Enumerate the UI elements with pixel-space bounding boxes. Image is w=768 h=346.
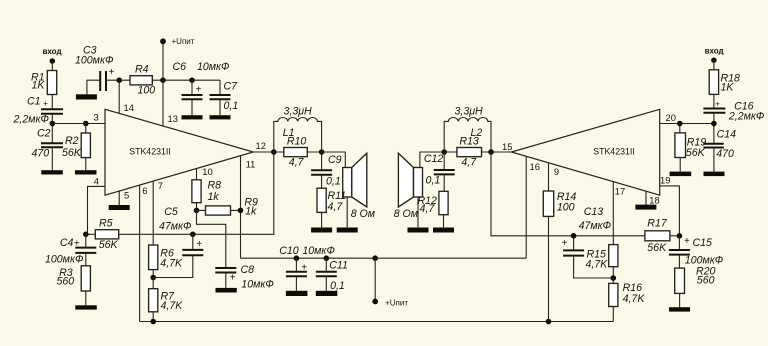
- node C15/R17: [677, 233, 683, 239]
- node R8/R9: [194, 208, 200, 214]
- svg-text:C5: C5: [164, 206, 178, 218]
- node C6 top: [189, 77, 195, 83]
- pin 18 wire: [645, 191, 647, 205]
- wire R3 to ground: [85, 291, 87, 305]
- svg-text:R13: R13: [459, 136, 479, 148]
- ground pin 5: [109, 205, 130, 210]
- feedback wire right (output node to R17): [491, 152, 645, 236]
- wire speaker right to ground: [417, 197, 419, 227]
- wire +U node to C6/C7: [163, 79, 220, 81]
- node R19 top: [677, 121, 683, 127]
- node output L1 right: [319, 149, 325, 155]
- node R7 bottom: [150, 319, 156, 325]
- svg-text:100: 100: [557, 202, 575, 214]
- pin 7 wire (to R6): [152, 181, 154, 245]
- svg-text:R5: R5: [99, 218, 113, 230]
- svg-text:19: 19: [660, 175, 670, 186]
- svg-text:0,1: 0,1: [326, 176, 341, 188]
- svg-text:+Uпит: +Uпит: [172, 37, 195, 46]
- capacitor C16 2,2мкФ: [703, 100, 764, 123]
- ground speaker right: [408, 228, 429, 233]
- svg-text:C15: C15: [693, 237, 713, 249]
- svg-text:+: +: [196, 85, 202, 96]
- +U supply rail (bottom middle): [241, 257, 527, 259]
- wire R12 to ground: [443, 215, 445, 228]
- ground R20: [669, 307, 690, 311]
- svg-text:17: 17: [615, 186, 625, 197]
- ground pin 18: [635, 205, 656, 210]
- svg-text:2,2мкФ: 2,2мкФ: [13, 114, 49, 126]
- wire R8 node to C8: [197, 210, 226, 268]
- capacitor C15 100мкФ: [669, 236, 723, 268]
- wire to right speaker: [420, 152, 444, 168]
- svg-text:4,7K: 4,7K: [161, 300, 184, 312]
- speaker left 8 Ом: [343, 153, 376, 220]
- svg-text:560: 560: [57, 276, 75, 288]
- svg-text:STK4231II: STK4231II: [593, 147, 635, 157]
- speaker right 8 Ом: [394, 153, 423, 220]
- wire R2 to ground: [85, 158, 87, 171]
- pin 9 wire (to R14): [548, 163, 550, 191]
- resistor R18 1K: [709, 70, 740, 95]
- pin 5 wire: [118, 191, 120, 205]
- capacitor C4 100мкФ: [45, 234, 96, 265]
- capacitor C13 47мкФ: [562, 206, 614, 278]
- ground C8: [216, 288, 237, 293]
- svg-text:10мкФ: 10мкФ: [197, 61, 229, 73]
- op-amp IC2 STK4231II (right): [511, 109, 659, 195]
- node input junction: [50, 121, 56, 127]
- capacitor C9 0,1: [311, 152, 342, 188]
- svg-text:15: 15: [502, 141, 512, 152]
- svg-text:+: +: [196, 239, 202, 250]
- svg-text:4,7K: 4,7K: [623, 293, 646, 305]
- svg-text:10: 10: [202, 166, 212, 177]
- wire C2 to ground: [51, 147, 53, 170]
- power terminal +Uпит (top): [160, 37, 195, 46]
- svg-text:5: 5: [124, 189, 129, 200]
- node R14 bottom: [546, 319, 552, 325]
- capacitor C5 47мкФ: [153, 206, 203, 278]
- svg-text:C1: C1: [27, 96, 41, 108]
- ground C14: [704, 172, 725, 177]
- svg-text:100мкФ: 100мкФ: [45, 254, 83, 266]
- pin 17 wire (to R15): [612, 182, 614, 245]
- svg-text:47мкФ: 47мкФ: [159, 221, 191, 233]
- node C5 top: [190, 232, 196, 238]
- wire speaker to ground: [346, 197, 348, 227]
- resistor R10 4,7: [274, 136, 322, 169]
- pin 10 wire: [196, 168, 198, 180]
- svg-text:16: 16: [530, 161, 540, 172]
- op-amp IC1 STK4231II (left): [105, 109, 253, 195]
- node R4/+Uпит: [160, 77, 166, 83]
- svg-text:0,1: 0,1: [224, 100, 239, 112]
- node +U drop: [372, 255, 378, 261]
- capacitor C10 10мкФ: [279, 245, 335, 291]
- pin 12 output wire: [253, 151, 273, 153]
- pin 15 output wire: [491, 151, 511, 153]
- resistor R17 56K: [645, 218, 670, 255]
- svg-text:C2: C2: [37, 127, 51, 139]
- svg-text:4,7: 4,7: [328, 201, 344, 213]
- svg-text:R2: R2: [65, 135, 79, 147]
- svg-text:+: +: [562, 238, 568, 249]
- svg-text:4,7: 4,7: [289, 157, 305, 169]
- resistor R2 56K: [62, 133, 90, 159]
- wire R4 to +U node: [152, 79, 163, 81]
- svg-text:R17: R17: [647, 218, 668, 230]
- svg-text:+: +: [684, 236, 690, 247]
- svg-text:4,7K: 4,7K: [160, 258, 183, 270]
- capacitor C14 470: [703, 129, 736, 172]
- wire R15 to node: [612, 267, 614, 278]
- resistor R15 4,7K: [586, 245, 618, 271]
- wire R14 to bus: [548, 216, 550, 321]
- node R2 top: [83, 121, 89, 127]
- svg-text:56K: 56K: [62, 147, 82, 159]
- svg-text:C11: C11: [329, 260, 348, 272]
- ground C2: [41, 170, 63, 174]
- wire C3 to R4: [106, 79, 130, 81]
- feedback wire left (R5 to output node): [119, 152, 274, 234]
- svg-text:8 Ом: 8 Ом: [394, 208, 419, 220]
- inductor L2 3,3uH: [444, 106, 491, 153]
- svg-text:STK4231II: STK4231II: [129, 147, 171, 157]
- node R6/R7/C5: [150, 275, 156, 281]
- svg-text:4,7: 4,7: [420, 203, 436, 215]
- svg-text:C14: C14: [717, 129, 737, 141]
- svg-text:4,7: 4,7: [461, 157, 477, 169]
- capacitor C7 0,1: [210, 80, 239, 115]
- svg-text:1K: 1K: [32, 79, 46, 91]
- svg-text:+: +: [43, 99, 48, 108]
- wire R19 to ground: [679, 158, 681, 172]
- svg-text:18: 18: [649, 195, 659, 206]
- wire node to R19: [679, 124, 681, 133]
- svg-text:14: 14: [124, 102, 134, 113]
- node output L2 left: [441, 149, 447, 155]
- wire R1 to C1: [51, 95, 53, 110]
- capacitor C12 0,1: [424, 152, 455, 191]
- svg-text:R4: R4: [135, 64, 149, 76]
- capacitor C1 2,2мкФ: [13, 96, 64, 126]
- node pin14 top: [116, 77, 122, 83]
- wire C16 to C14: [713, 113, 715, 144]
- svg-text:вход: вход: [705, 47, 724, 56]
- resistor R11 4,7: [317, 188, 346, 213]
- ground C6: [182, 115, 203, 119]
- wire C3 to ground: [87, 80, 100, 94]
- svg-text:3,3μH: 3,3μH: [455, 106, 484, 118]
- svg-text:56K: 56K: [647, 242, 667, 254]
- svg-text:C10: C10: [279, 245, 299, 257]
- resistor R1 1K: [31, 71, 57, 95]
- svg-text:6: 6: [142, 185, 147, 196]
- node output L2 right: [488, 149, 494, 155]
- svg-text:+Uпит: +Uпит: [385, 299, 408, 308]
- ground R11: [311, 228, 332, 233]
- ground C10: [286, 291, 308, 296]
- wire R20 to ground: [679, 293, 681, 307]
- bottom bus wire: [140, 321, 614, 323]
- resistor R13 4,7: [444, 136, 491, 169]
- wire R16 to bus: [612, 307, 614, 322]
- svg-text:+: +: [715, 100, 720, 109]
- wire input to R1: [51, 61, 53, 70]
- svg-text:10мкФ: 10мкФ: [241, 279, 273, 291]
- svg-text:0,1: 0,1: [330, 280, 345, 292]
- resistor R9 1k: [197, 197, 259, 218]
- wire to pin 14: [118, 80, 120, 113]
- svg-text:0,1: 0,1: [426, 175, 441, 187]
- ground speaker left: [337, 228, 358, 233]
- svg-text:вход: вход: [43, 47, 62, 56]
- resistor R7 4,7K: [149, 278, 184, 313]
- node R15/R16/C13: [611, 275, 617, 281]
- svg-text:1k: 1k: [245, 206, 257, 218]
- svg-text:9: 9: [554, 166, 559, 177]
- svg-text:11: 11: [246, 159, 256, 170]
- resistor R12 4,7: [418, 191, 449, 215]
- svg-text:C9: C9: [328, 154, 342, 166]
- svg-text:C4: C4: [60, 237, 74, 249]
- wire to left speaker: [322, 152, 346, 168]
- svg-text:470: 470: [32, 148, 50, 160]
- wire up to +Uпит terminal: [162, 41, 164, 80]
- wire R7 to bus: [152, 312, 154, 322]
- wire C1 to C2: [51, 114, 53, 143]
- wire R11 to ground: [321, 212, 323, 227]
- svg-text:4,7K: 4,7K: [586, 259, 609, 271]
- resistor R20 560: [675, 266, 716, 294]
- capacitor C6 10мкФ: [173, 61, 230, 115]
- svg-text:100: 100: [138, 85, 156, 97]
- svg-text:1k: 1k: [208, 191, 220, 203]
- node C4/R5: [83, 232, 89, 238]
- svg-text:20: 20: [666, 112, 676, 123]
- wire to pin 13: [162, 80, 164, 126]
- svg-text:C8: C8: [241, 264, 255, 276]
- ground R12: [433, 228, 454, 233]
- svg-text:4: 4: [94, 175, 99, 186]
- wire input right to R18: [713, 60, 715, 70]
- svg-text:R10: R10: [287, 136, 307, 148]
- svg-text:3: 3: [94, 112, 99, 123]
- pin 11 wire (to +U rail): [240, 156, 242, 258]
- resistor R3 560: [57, 266, 91, 291]
- ground C7: [210, 115, 231, 119]
- node input right: [711, 121, 717, 127]
- ground R19: [670, 172, 692, 177]
- capacitor C2 470: [32, 127, 64, 159]
- svg-text:56K: 56K: [686, 147, 706, 159]
- svg-text:C7: C7: [224, 81, 239, 93]
- wire node to R2: [85, 124, 87, 134]
- svg-text:100мкФ: 100мкФ: [685, 254, 723, 266]
- wire R18 to C16: [713, 94, 715, 108]
- ground C11: [316, 291, 338, 296]
- wire rail to +Uпит terminal: [374, 258, 376, 301]
- ground R2: [75, 170, 97, 174]
- resistor R5 56K: [95, 218, 118, 252]
- pin 20 wire: [660, 123, 714, 125]
- node R9 right: [238, 208, 244, 214]
- pin 19 wire: [660, 186, 680, 236]
- svg-text:+: +: [109, 67, 115, 78]
- capacitor C8 10мкФ: [215, 264, 273, 291]
- svg-text:12: 12: [256, 140, 266, 151]
- node output L1 left: [271, 149, 277, 155]
- node C13 top: [571, 233, 577, 239]
- input terminal вход (right): [705, 47, 724, 63]
- svg-text:C13: C13: [584, 206, 604, 218]
- ground C3: [76, 94, 97, 99]
- svg-text:3,3μH: 3,3μH: [284, 106, 313, 118]
- resistor R8 1k: [192, 179, 221, 203]
- svg-text:10мкФ: 10мкФ: [302, 245, 334, 257]
- svg-text:R8: R8: [208, 179, 222, 191]
- svg-text:C12: C12: [424, 153, 444, 165]
- resistor R16 4,7K: [609, 278, 646, 307]
- resistor R14 100: [543, 191, 576, 216]
- node C11 top: [324, 255, 330, 261]
- pin 16 wire (to +U rail): [525, 156, 527, 258]
- wire R8 to node: [196, 203, 198, 211]
- svg-text:1K: 1K: [721, 82, 735, 94]
- node C10 top: [294, 255, 300, 261]
- resistor R19 56K: [675, 133, 706, 159]
- wire R17 to node: [670, 235, 680, 237]
- wire R6 to node: [152, 270, 154, 278]
- svg-text:C6: C6: [173, 61, 187, 73]
- pin 4 wire: [88, 186, 106, 234]
- svg-text:56K: 56K: [99, 239, 119, 251]
- capacitor C11 0,1: [316, 258, 348, 292]
- svg-text:47мкФ: 47мкФ: [579, 220, 611, 232]
- wire node to pin 3: [52, 123, 105, 125]
- wire R5 left to node: [86, 233, 96, 235]
- svg-text:7: 7: [158, 180, 163, 191]
- wire C4 to R3: [85, 253, 87, 266]
- svg-text:+: +: [230, 273, 236, 284]
- ground R3: [75, 305, 97, 309]
- svg-text:8 Ом: 8 Ом: [351, 208, 376, 220]
- svg-text:13: 13: [168, 113, 178, 124]
- svg-text:2,2мкФ: 2,2мкФ: [728, 111, 764, 123]
- resistor R6 4,7K: [149, 245, 183, 270]
- svg-text:100мкФ: 100мкФ: [75, 55, 113, 67]
- pin 6 wire (to bottom bus): [139, 185, 141, 322]
- resistor R4 100: [130, 64, 155, 97]
- power terminal +Uпит (bottom): [372, 299, 408, 308]
- svg-text:470: 470: [716, 148, 734, 160]
- capacitor C3 100мкФ: [75, 45, 115, 92]
- input terminal вход (left): [43, 47, 62, 64]
- svg-text:560: 560: [697, 274, 715, 286]
- inductor L1 3,3uH: [274, 106, 322, 153]
